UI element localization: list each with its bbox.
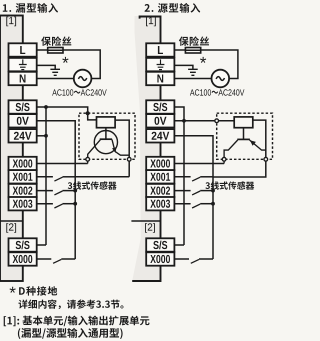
terminal box 0V (right/source column) [146, 114, 174, 127]
wire through fuse (source column) [185, 49, 200, 51]
terminal box 0V (left/sink column) [9, 114, 37, 127]
tilde inside AC source G2 [216, 77, 224, 81]
label X001 in terminal box (right/source column) [150, 173, 170, 181]
junction dot 24V bus row X002 (source column) [211, 189, 215, 193]
wire: S/S terminal to sensor supply [37, 107, 97, 120]
terminal box X000 (right/source column) [146, 157, 174, 170]
wire: 24V terminal down to switch common bus (source column) [174, 136, 213, 259]
terminal box S/S (left/sink column) [9, 100, 37, 113]
sensor +V entry dot on dashed edge [86, 111, 90, 115]
label X003 in terminal box (right/source column) [150, 200, 170, 208]
switch blade X003 (sink column) [54, 204, 62, 208]
label fuse right [179, 36, 209, 46]
terminal box X0002 (right/source column) [146, 252, 174, 265]
label fullwidth tilde right [212, 91, 219, 94]
label 3-wire sensor right [205, 181, 254, 189]
earth symbol inside GND terminal (right/source column) [157, 59, 165, 69]
wire: [2] X000 stub [37, 258, 52, 260]
terminal box X002 (left/sink column) [9, 184, 37, 197]
switch blade [2] X000 (sink column) [53, 259, 61, 263]
wire: block to collector pull-up / 0V side [115, 120, 129, 177]
wire: X000 terminal to sensor output [37, 163, 88, 165]
earth symbol inside GND terminal (left/sink column) [19, 59, 27, 69]
footnote D-class grounding [19, 286, 57, 295]
junction dot S/S-bus [44, 105, 48, 109]
label X000 in terminal box (right/source column) [150, 159, 170, 167]
terminal box X003 (right/source column) [146, 197, 174, 210]
wire: ground terminal to earth (source column) [174, 65, 193, 69]
wire: X002 stub (source column) [174, 190, 190, 192]
junction dot 0V bus row X003 [73, 202, 77, 206]
wire: 0V terminal to sensor (source column) [174, 120, 234, 122]
wire: fuse to AC source top loop (source column) [201, 50, 238, 79]
wire: [2] S/S to bus (source column) [174, 244, 184, 246]
switch blade X001 (source column) [192, 177, 200, 181]
label L in terminal box (right/source column) [158, 46, 163, 54]
label S/S in terminal box (right/source column) [153, 241, 167, 250]
wire through fuse [48, 49, 63, 51]
label 24V in terminal box (right/source column) [152, 132, 170, 140]
junction dot 24V bus row X003 (source column) [211, 202, 215, 206]
title 1. sink input [3, 3, 58, 13]
S/S-24V jumper bus (sink column) [45, 107, 47, 245]
terminal box GND (right/source column) [146, 58, 174, 71]
PLC unit body [1]/[2] with torn left edge (right/source column) [132, 16, 160, 281]
label [1] right [146, 17, 156, 27]
wire: switch X003 to 0V bus [63, 203, 76, 205]
PLC unit body [1]/[2] (left/sink column) [0, 16, 23, 282]
wire: switch X001 to 0V bus [63, 176, 76, 178]
terminal box S/S (right/source column) [146, 100, 174, 113]
wire: switch X002 to 0V bus [63, 190, 76, 192]
transistor Q2 emitter lead (source column) [250, 140, 266, 150]
terminal box X001 (left/sink column) [9, 170, 37, 183]
terminal box 24V (right/source column) [146, 129, 174, 142]
wire: block right to 24V side (source column) [213, 120, 266, 177]
caption [1] basic unit [4, 316, 150, 327]
fuse F1 (sink column) [48, 48, 63, 54]
wire: X002 stub [37, 190, 53, 192]
wire: [2] X000 switch to 24V bus (source column) [199, 258, 213, 260]
wire: ground terminal to earth [37, 65, 56, 69]
label S/S in terminal box (left/sink column) [16, 241, 30, 250]
wire: X001 row extension to sensor 0V [75, 176, 129, 178]
label 0V in terminal box (left/sink column) [17, 117, 29, 125]
wire: L terminal to fuse [37, 49, 48, 51]
wire: 24V terminal to bus [37, 135, 46, 137]
terminal box N (left/sink column) [9, 72, 37, 85]
footnote asterisk [10, 287, 16, 293]
transistor Q2 base bar (source column) [237, 138, 250, 140]
terminal box S/S2 (left/sink column) [9, 238, 37, 251]
3-wire sensor dashed outline (source column) [217, 113, 273, 159]
label X001 in terminal box (left/sink column) [13, 173, 33, 181]
label 24V in terminal box (left/sink column) [14, 132, 32, 140]
sensor output terminal ring bottom-left (source column) [222, 157, 226, 161]
AC source G1 (sink column) [74, 70, 92, 88]
wire: X003 stub (source column) [174, 203, 190, 205]
wire: switch X002 to 24V bus (source column) [200, 190, 213, 192]
terminal box L (left/sink column) [9, 43, 37, 56]
sensor 24V terminal ring bottom-right (source column) [264, 157, 268, 161]
terminal box N (right/source column) [146, 72, 174, 85]
label AC100 right [190, 89, 211, 95]
asterisk near ground right [200, 57, 206, 63]
asterisk near ground left [62, 57, 68, 63]
earth ground symbol (source column) [188, 69, 198, 75]
label L in terminal box (left/sink column) [20, 46, 25, 54]
terminal box GND (left/sink column) [9, 58, 37, 71]
label X002 in terminal box (right/source column) [150, 187, 170, 195]
wire: N terminal to AC source (source column) [174, 78, 211, 80]
divider between unit [1] and [2] (right/source column) [131, 220, 160, 222]
label 3-wire sensor left [68, 181, 117, 189]
terminal box X002 (right/source column) [146, 184, 174, 197]
label X003 in terminal box (left/sink column) [13, 200, 33, 208]
junction dot S/S bus at 0V row [182, 119, 186, 123]
label X002 in terminal box (left/sink column) [13, 187, 33, 195]
sensor main-circuit block (sink column) [97, 117, 116, 128]
terminal box L (right/source column) [146, 43, 174, 56]
transistor Q1 base bar [100, 138, 112, 140]
emitter arrowhead (NPN) [112, 147, 116, 153]
terminal box X001 (right/source column) [146, 170, 174, 183]
3-wire sensor dashed outline (sink column) [79, 113, 135, 159]
wire: X001 stub [37, 176, 53, 178]
wire: switch X003 to 24V bus (source column) [200, 203, 213, 205]
footnote details see 3.3 [19, 299, 124, 309]
fuse F2 (source column) [185, 48, 200, 54]
junction dot 24V-bus [44, 134, 48, 138]
label AC240V left [81, 89, 107, 95]
PLC unit border (top, right, bottom) (right/source column) [132, 17, 160, 282]
wire: fuse to AC source (top loop) [63, 50, 100, 79]
transistor Q1 emitter lead [112, 140, 129, 156]
wire: [2] X000 stub (source column) [174, 258, 189, 260]
sensor output terminal ring (bottom-left) [86, 157, 90, 161]
wire: [2] S/S to bus [37, 244, 46, 246]
label X000 in terminal box (right/source column) [150, 255, 170, 263]
sensor 0V entry ring on dashed edge (source column) [215, 119, 219, 123]
switch blade X003 (source column) [192, 204, 200, 208]
wire: switch X001 to 24V bus (source column) [200, 176, 213, 178]
label N in terminal box (right/source column) [157, 75, 163, 83]
terminal box 24V (left/sink column) [9, 129, 37, 142]
tilde inside AC source [78, 77, 86, 81]
earth ground symbol (sink column) [50, 69, 60, 75]
base stem from block [105, 128, 107, 140]
transistor Q1 collector lead to output [88, 140, 101, 164]
base stem from block (source column) [243, 128, 245, 140]
transistor Q2 collector lead to output (source column) [224, 140, 238, 164]
label [2] right [145, 223, 155, 233]
label AC100 left [52, 89, 73, 95]
terminal box X003 (left/sink column) [9, 197, 37, 210]
label S/S in terminal box (right/source column) [153, 103, 167, 112]
emitter arrowhead (PNP, pointing to base) [250, 140, 256, 146]
wire: L terminal to fuse (source column) [174, 49, 185, 51]
wire: X000 terminal to sensor output (source column) [174, 163, 224, 165]
title 2. source input [145, 3, 201, 13]
label [1] left [6, 17, 16, 27]
terminal box X000 (left/sink column) [9, 157, 37, 170]
junction dot 0V bus row X002 [73, 189, 77, 193]
label S/S in terminal box (left/sink column) [16, 103, 30, 112]
wire: [2] X000 switch to 0V bus [61, 258, 75, 260]
sensor 0V terminal ring (bottom-right) [127, 157, 131, 161]
terminal box S/S2 (right/source column) [146, 238, 174, 251]
divider between unit [1] and [2] (left/sink column) [0, 220, 23, 222]
label 0V in terminal box (right/source column) [155, 117, 167, 125]
switch blade X002 (source column) [192, 191, 200, 195]
label [2] left [6, 223, 16, 233]
label X000 in terminal box (left/sink column) [13, 159, 33, 167]
caption sink/source universal [18, 328, 123, 339]
AC source G2 (source column) [212, 70, 230, 88]
label N in terminal box (left/sink column) [20, 75, 26, 83]
label AC240V right [218, 89, 244, 95]
sensor main-circuit block (source column) [234, 117, 253, 128]
transistor Q1 envelope circle [94, 131, 117, 154]
label fuse left [41, 36, 71, 46]
switch blade [2] X000 (source column) [191, 259, 199, 263]
wire: X003 stub [37, 203, 53, 205]
switch blade X001 (sink column) [54, 177, 62, 181]
wire: X001 stub (source column) [174, 176, 190, 178]
wire: N terminal to AC source [37, 78, 74, 80]
wire: S/S terminal to 0V jumper bus (source column) [174, 107, 184, 245]
label X000 in terminal box (left/sink column) [13, 255, 33, 263]
switch blade X002 (sink column) [54, 191, 62, 195]
label fullwidth tilde left [74, 91, 81, 94]
terminal box X0002 (left/sink column) [9, 252, 37, 265]
wire: 0V terminal down to switch common bus [37, 121, 75, 259]
